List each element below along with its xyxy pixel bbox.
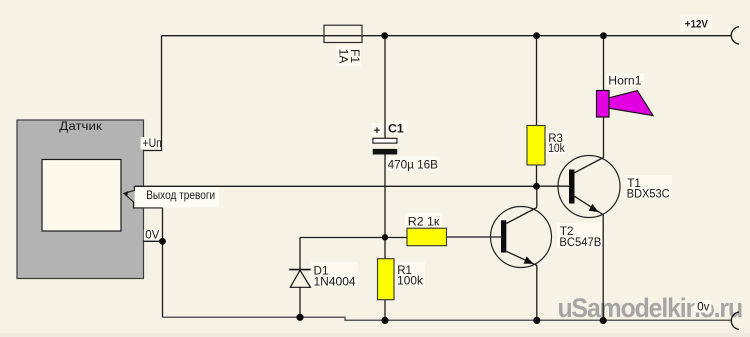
svg-text:470µ 16В: 470µ 16В <box>388 158 438 172</box>
svg-text:10k: 10k <box>548 143 565 155</box>
svg-text:1N4004: 1N4004 <box>314 275 357 288</box>
svg-text:+12V: +12V <box>685 19 708 31</box>
svg-text:R2 1к: R2 1к <box>408 216 440 229</box>
svg-text:0V: 0V <box>145 229 159 241</box>
svg-text:+: + <box>374 125 380 137</box>
svg-text:C1: C1 <box>388 121 404 135</box>
svg-text:BDX53C: BDX53C <box>627 187 670 200</box>
svg-text:Horn1: Horn1 <box>608 76 641 88</box>
svg-text:F11A: F11A <box>337 49 362 64</box>
svg-text:Датчик: Датчик <box>59 121 103 133</box>
svg-text:0v: 0v <box>697 301 709 313</box>
svg-text:100k: 100k <box>397 276 423 288</box>
svg-text:Выход тревоги: Выход тревоги <box>146 189 215 202</box>
svg-text:BC547B: BC547B <box>559 236 601 249</box>
svg-text:uSamodelkino.ru: uSamodelkino.ru <box>558 293 743 323</box>
svg-text:+Uп: +Uп <box>143 138 162 150</box>
